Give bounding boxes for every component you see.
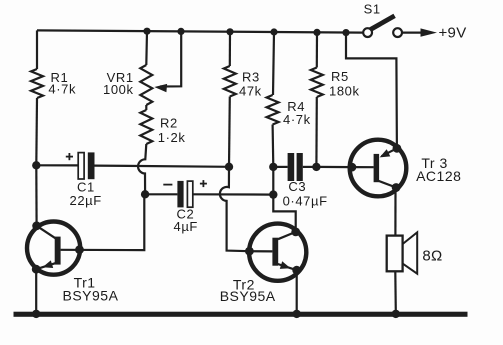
svg-text:4·7k: 4·7k — [283, 112, 311, 127]
svg-text:R3: R3 — [242, 70, 260, 85]
svg-text:S1: S1 — [364, 2, 381, 17]
svg-text:+9V: +9V — [439, 24, 467, 41]
svg-text:4·7k: 4·7k — [48, 82, 76, 97]
svg-text:22µF: 22µF — [70, 193, 102, 208]
svg-text:BSY95A: BSY95A — [63, 288, 119, 304]
svg-text:100k: 100k — [103, 82, 134, 97]
svg-text:BSY95A: BSY95A — [220, 288, 276, 304]
svg-text:4µF: 4µF — [174, 219, 198, 234]
svg-text:C3: C3 — [288, 179, 306, 194]
svg-text:AC128: AC128 — [416, 168, 461, 184]
svg-text:180k: 180k — [329, 83, 360, 98]
svg-text:0·47µF: 0·47µF — [283, 194, 328, 209]
svg-text:8Ω: 8Ω — [422, 248, 442, 265]
svg-text:47k: 47k — [239, 83, 262, 98]
svg-text:R2: R2 — [160, 116, 178, 131]
svg-text:R5: R5 — [331, 69, 349, 84]
svg-text:1·2k: 1·2k — [158, 130, 186, 145]
